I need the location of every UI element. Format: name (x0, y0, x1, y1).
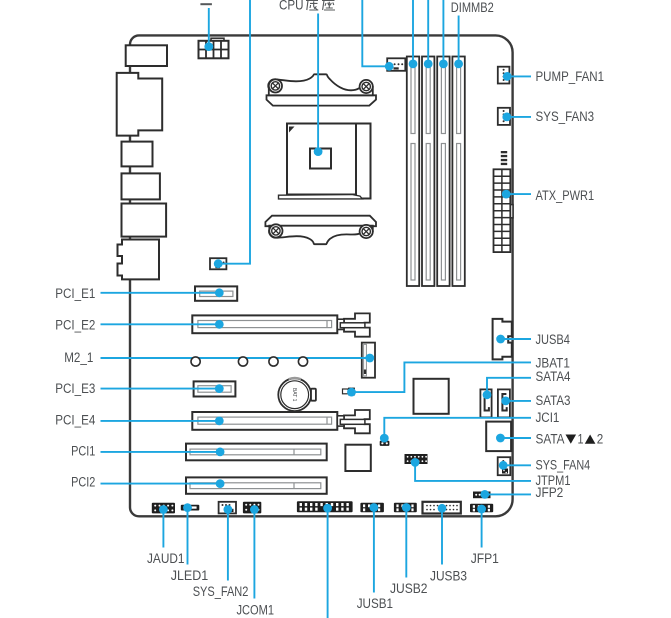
wire JUSB1 (373, 508, 375, 593)
svg-text:JUSB4: JUSB4 (536, 332, 571, 347)
CPU socket (279, 124, 371, 199)
wire JCI1 (384, 418, 531, 438)
wire DIMMB1 (442, 0, 444, 64)
label JUSB1 (357, 596, 393, 611)
label SATA4 (536, 369, 571, 384)
rear port P1 (126, 45, 167, 66)
wire PCI_E2 (101, 323, 220, 325)
label JAUD1 (147, 551, 185, 566)
svg-text:JAUD1: JAUD1 (147, 551, 185, 566)
wire SYS_FAN3 (507, 116, 531, 118)
glyph 座 (322, 1, 335, 11)
label JFP2 (536, 485, 564, 500)
connector JFP2 (473, 492, 491, 499)
wire JFP2 (485, 493, 531, 495)
svg-text:JCI1: JCI1 (536, 410, 560, 425)
connector JTPM1 (405, 454, 428, 464)
wire DIMMB2 (458, 16, 460, 64)
wire PUMP_FAN1 (507, 75, 531, 77)
wire JLED1 (187, 508, 189, 565)
label PCI_E2 (55, 318, 95, 333)
label PCI_E3 (55, 381, 95, 396)
label JUSB3 (430, 569, 467, 584)
label SYS_FAN4 (536, 457, 591, 472)
label SATA12 (536, 432, 604, 447)
connector JCI1 (380, 441, 390, 446)
retention bracket top (267, 74, 377, 105)
wire PCI2 (101, 483, 221, 485)
connector ATX_PWR1 24-pin (494, 169, 514, 252)
svg-text:PCI_E2: PCI_E2 (55, 318, 95, 333)
wire SATA4 (487, 378, 531, 395)
label JUSB4 (536, 332, 571, 347)
M.2 screw hole 2242 (191, 357, 200, 366)
motherboard outline (130, 35, 513, 516)
BIOS chip (345, 445, 370, 471)
label CPU socket (cropped) (279, 0, 335, 13)
rear port P3 (122, 142, 153, 167)
svg-text:1: 1 (578, 432, 584, 447)
connector SATA4 (480, 389, 491, 417)
header JLED1 (181, 505, 200, 511)
wire JUSB4 (501, 338, 531, 340)
wire JBAT1 (351, 362, 531, 392)
label DIMMB2 (cropped) (451, 0, 494, 15)
label JFP1 (471, 551, 499, 566)
connector SYS_FAN3 (498, 108, 510, 125)
M.2 screw hole 2280 (269, 357, 278, 366)
wire SYS_FAN4 (503, 464, 531, 466)
label SYS_FAN3 (536, 109, 595, 124)
connector M2_1 (362, 343, 375, 378)
slot PCI1 (186, 444, 327, 461)
wire CPU socket (317, 14, 319, 152)
svg-text:SYS_FAN3: SYS_FAN3 (536, 109, 595, 124)
header JDASH (long) (297, 501, 353, 512)
slot PCI2 (186, 477, 327, 493)
wire JUSB2 (405, 508, 407, 578)
label SYS_FAN2 (193, 584, 249, 599)
connector SATA12 (486, 422, 511, 452)
header JAUD1 (152, 503, 175, 514)
label JCOM1 (237, 602, 275, 617)
header JUSB1 (360, 503, 384, 512)
DIMM slot A1 (407, 57, 419, 287)
wire PCI_E4 (101, 420, 220, 422)
label JTPM1 (536, 473, 571, 488)
svg-text:JFP1: JFP1 (471, 551, 499, 566)
DIMM slot B2 (452, 57, 464, 287)
wire JDASH (327, 508, 329, 618)
M.2 screw holes (0, 0, 1, 1)
label ATX_PWR1 (536, 188, 595, 203)
svg-text:DIMMB2: DIMMB2 (451, 0, 494, 15)
svg-text:SATA: SATA (536, 432, 565, 447)
wire ATX_PWR1 (506, 193, 531, 195)
wire SYS_FAN2 (227, 510, 229, 581)
retention bracket bottom (265, 216, 376, 245)
label PCI2 (71, 475, 95, 490)
wire M2_1 (101, 357, 370, 359)
label PCI_E4 (55, 412, 95, 427)
wire CPU_PWR1 (208, 8, 210, 47)
svg-text:JUSB1: JUSB1 (357, 596, 393, 611)
label PCI1 (71, 444, 95, 459)
rear port P2 (DVI) (117, 73, 163, 136)
header JUSB2 (394, 503, 417, 512)
svg-text:PCI_E4: PCI_E4 (55, 412, 95, 427)
wire JTPM1 (415, 462, 531, 481)
svg-text:PCI_E3: PCI_E3 (55, 381, 95, 396)
M.2 screw hole 2260 (238, 357, 247, 366)
svg-text:SYS_FAN4: SYS_FAN4 (536, 457, 591, 472)
glyph 底 (306, 1, 318, 11)
connector CPU_FAN1 (387, 58, 405, 71)
svg-text:PCI1: PCI1 (71, 444, 95, 459)
rear port P4 (122, 173, 160, 199)
svg-text:PCI2: PCI2 (71, 475, 95, 490)
label PCI_E1 (55, 286, 95, 301)
connector SYS_FAN2 (219, 502, 236, 514)
wire PCI_E1 (101, 292, 220, 294)
label SATA3 (536, 393, 571, 408)
rear port P6 (audio) (118, 240, 160, 280)
slot PCI_E1 (195, 286, 237, 300)
header JCOM1 (243, 502, 261, 514)
slot PCI_E3 (194, 381, 236, 396)
rear port P5 (122, 204, 167, 237)
connector JUSB3 (423, 502, 461, 514)
svg-text:PUMP_FAN1: PUMP_FAN1 (536, 69, 605, 84)
label JUSB2 (390, 581, 428, 596)
svg-text:JLED1: JLED1 (171, 568, 209, 583)
wire SYS_FAN1 (220, 0, 250, 264)
connector PUMP_FAN1 (498, 67, 510, 84)
wire dots (159, 42, 512, 514)
wire JCOM1 (253, 510, 255, 599)
connector CPU_PWR1 8-pin (199, 38, 229, 58)
wire DIMMA1 (412, 0, 414, 64)
label M2_1 (64, 350, 93, 365)
label PUMP_FAN1 (536, 69, 605, 84)
wire JAUD1 (162, 510, 164, 548)
svg-text:M2_1: M2_1 (64, 350, 93, 365)
wire SATA12 (500, 437, 531, 439)
wire CPU_FAN1 (362, 0, 387, 66)
svg-text:CPU: CPU (279, 0, 304, 13)
wire DIMMA2 (427, 0, 429, 64)
wire PCI_E3 (101, 388, 220, 390)
slot PCI_E2 (192, 313, 369, 336)
header JFP1 (470, 504, 493, 512)
battery BAT1 (278, 378, 316, 411)
label JBAT1 (536, 356, 570, 371)
chipset (414, 379, 449, 414)
svg-text:ATX_PWR1: ATX_PWR1 (536, 188, 595, 203)
svg-text:PCI_E1: PCI_E1 (55, 286, 95, 301)
slot PCI_E4 (192, 410, 369, 433)
connector SYS_FAN4 (498, 457, 511, 475)
connector JUSB4 (493, 319, 512, 360)
svg-text:JUSB3: JUSB3 (430, 569, 467, 584)
label remnant dash top left (200, 3, 212, 5)
M.2 screw hole 22110 (298, 357, 307, 366)
label JLED1 (171, 568, 209, 583)
svg-text:SATA4: SATA4 (536, 369, 571, 384)
component JBAT1 (343, 388, 355, 396)
DIMM slot A2 (422, 57, 434, 287)
svg-text:JUSB2: JUSB2 (390, 581, 428, 596)
connector SATA3 (498, 389, 510, 417)
connector SYS_FAN1 (210, 258, 226, 269)
svg-text:2: 2 (597, 432, 604, 447)
svg-text:SATA3: SATA3 (536, 393, 571, 408)
svg-text:JCOM1: JCOM1 (237, 602, 275, 617)
wire JFP1 (481, 509, 483, 548)
svg-text:SYS_FAN2: SYS_FAN2 (193, 584, 249, 599)
wire SATA3 (506, 400, 531, 402)
label JCI1 (536, 410, 560, 425)
DIMM slot B1 (437, 57, 449, 287)
svg-text:BAT 1: BAT 1 (291, 388, 297, 402)
wire JUSB3 (441, 508, 443, 564)
svg-text:JFP2: JFP2 (536, 485, 564, 500)
solder pads above ATX (501, 151, 507, 165)
wire PCI1 (101, 451, 221, 453)
